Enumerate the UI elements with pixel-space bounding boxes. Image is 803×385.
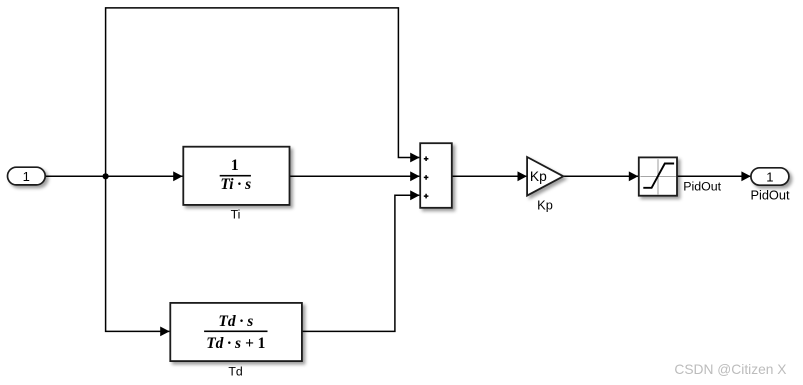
svg-text:Kp: Kp [537, 198, 553, 213]
svg-text:Ti · s: Ti · s [220, 176, 251, 193]
svg-text:Kp: Kp [530, 169, 547, 184]
wire Ti output to sum [290, 175, 420, 177]
svg-text:PidOut: PidOut [750, 187, 790, 202]
arrowhead into Ti [173, 171, 182, 181]
svg-text:CSDN @Citizen X: CSDN @Citizen X [674, 362, 786, 377]
svg-text:Td · s + 1: Td · s + 1 [206, 335, 265, 352]
svg-text:Td: Td [228, 365, 243, 379]
sum plus sign 2 [424, 175, 429, 180]
sum plus sign 3 [424, 194, 429, 199]
svg-text:Ti: Ti [231, 208, 241, 222]
output port 1 [751, 168, 789, 185]
gain block Kp triangle [527, 157, 563, 196]
svg-text:Td · s: Td · s [218, 313, 253, 330]
wire input port to Ti block [45, 175, 182, 177]
sum plus sign 1 [424, 156, 429, 161]
wire Td output to sum [302, 195, 420, 331]
saturation axis vertical [657, 159, 659, 194]
svg-text:1: 1 [231, 157, 239, 174]
saturation curve [643, 164, 674, 188]
wire feedback top branch [106, 8, 420, 176]
arrowhead into saturation [629, 171, 638, 181]
input port 1 [8, 167, 46, 185]
arrowhead into Kp [518, 171, 527, 181]
arrowhead into sum input 3 [410, 190, 419, 200]
svg-text:1: 1 [766, 169, 773, 184]
transfer function block Ti [183, 147, 289, 205]
junction node [103, 173, 109, 179]
wire sum to Kp gain [452, 175, 527, 177]
arrowhead into sum input 2 [410, 171, 419, 181]
transfer function block Td [170, 303, 302, 361]
saturation axis horizontal [640, 176, 676, 178]
wire bottom branch to Td [106, 176, 170, 331]
arrowhead into Td [160, 327, 169, 337]
wire Kp to saturation [563, 175, 638, 177]
wire saturation to output port [677, 175, 751, 177]
Td fraction bar [204, 331, 267, 333]
sum block [420, 143, 452, 208]
svg-text:1: 1 [23, 169, 30, 184]
arrowhead into sum input 1 [410, 153, 419, 163]
Ti fraction bar [220, 175, 251, 177]
arrowhead into output port [741, 171, 750, 181]
svg-text:PidOut: PidOut [683, 180, 721, 194]
saturation block [639, 157, 677, 195]
